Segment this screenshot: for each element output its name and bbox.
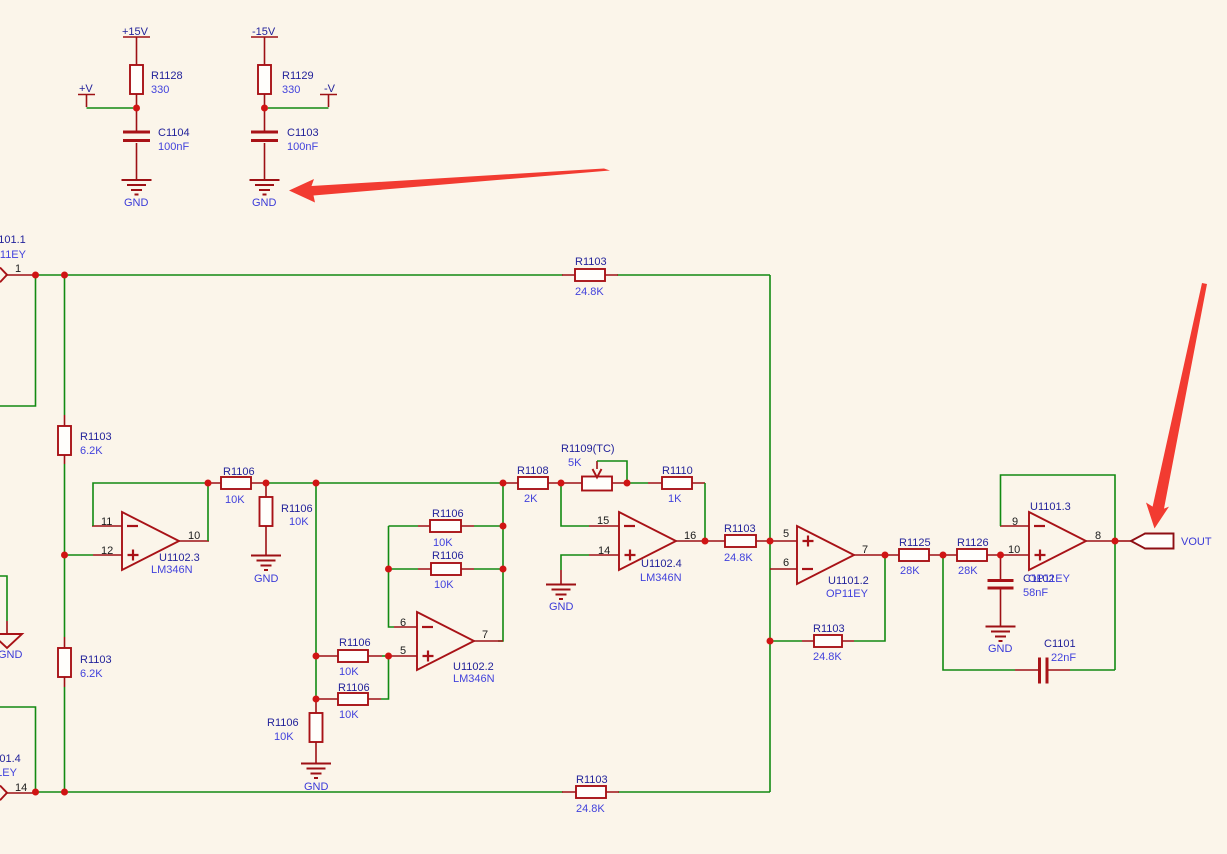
label R1103 <box>724 523 756 535</box>
svg-text:6.2K: 6.2K <box>80 668 103 680</box>
power rail -15V <box>251 26 278 65</box>
value OP11EY <box>826 588 869 600</box>
svg-text:-V: -V <box>324 83 336 95</box>
wire U1101.3 feedback box <box>1001 475 1116 541</box>
resistor R1106 (10K upper pair) <box>389 520 504 532</box>
svg-text:10K: 10K <box>289 516 309 528</box>
label R1103 <box>80 431 112 443</box>
label C1103 <box>287 127 319 139</box>
resistor R1110 (1K) <box>648 477 705 489</box>
wire x388 column pin6 <box>389 526 418 627</box>
op-amp U1101.1 (partial, left edge) <box>0 268 7 283</box>
wire R1106 to ground <box>265 526 267 555</box>
svg-text:28K: 28K <box>958 565 978 577</box>
svg-text:R1110: R1110 <box>662 465 693 477</box>
resistor R1106 (10K feedback U1102.3) <box>208 477 266 489</box>
svg-text:24.8K: 24.8K <box>724 552 753 564</box>
value 10K <box>433 537 453 549</box>
label C1104 <box>158 127 190 139</box>
terminal VOUT <box>1131 534 1174 549</box>
svg-text:24.8K: 24.8K <box>576 803 605 815</box>
label U1101.3 <box>1030 501 1071 513</box>
pin 15 <box>597 515 609 527</box>
op-amp U1102.3 <box>122 512 179 570</box>
svg-text:6: 6 <box>783 557 789 569</box>
wire node627 to R1110 <box>627 482 648 484</box>
pin 16 <box>684 530 696 542</box>
svg-text:10: 10 <box>1008 544 1020 556</box>
value 5K <box>568 457 582 469</box>
label C1101 <box>1044 638 1076 650</box>
svg-text:330: 330 <box>282 84 300 96</box>
label R1128 <box>151 70 183 82</box>
svg-text:7: 7 <box>482 629 488 641</box>
ground at U1102.4 pin14 <box>546 585 576 614</box>
ground bottom x316 <box>301 764 331 794</box>
capacitor C1102 (58nF) <box>988 555 1014 626</box>
svg-text:24.8K: 24.8K <box>575 286 604 298</box>
svg-text:GND: GND <box>549 601 574 613</box>
wire pin12 node down <box>64 555 66 648</box>
svg-text:R1108: R1108 <box>517 465 549 477</box>
label U1102.3 <box>159 552 200 564</box>
value 6.2K <box>80 668 103 680</box>
wire pin9 stub <box>1000 525 1029 527</box>
svg-text:58nF: 58nF <box>1023 587 1048 599</box>
svg-text:15: 15 <box>597 515 609 527</box>
wire pin11 to row483 <box>93 483 208 526</box>
wire long vertical feedback x770 <box>769 275 771 792</box>
resistor R1106 (10K lower row) <box>316 656 389 705</box>
op-amp U1101.2 <box>797 526 854 584</box>
svg-text:OP11EY: OP11EY <box>826 588 869 600</box>
svg-text:10K: 10K <box>225 494 245 506</box>
wire R1128 to node <box>136 94 138 108</box>
svg-text:C1101: C1101 <box>1044 638 1076 650</box>
label R1106 <box>223 466 255 478</box>
label C1102 <box>1023 573 1055 585</box>
wire left edge net <box>0 576 7 634</box>
pin 5 <box>400 645 406 657</box>
svg-text:R1125: R1125 <box>899 537 931 549</box>
svg-text:LM346N: LM346N <box>453 673 495 685</box>
svg-text:U1101.1: U1101.1 <box>0 234 26 246</box>
label R1106 <box>339 637 371 649</box>
label U1102.4 <box>641 558 682 570</box>
value 10K <box>339 666 359 678</box>
pin 14 <box>598 545 610 557</box>
wire pin5 stub <box>388 655 417 657</box>
resistor R1103 (6.2K lower) <box>58 648 71 677</box>
svg-text:10K: 10K <box>433 537 453 549</box>
power rail +15V <box>122 26 150 65</box>
value OP11EY <box>0 249 27 261</box>
wire +V to node <box>87 107 134 109</box>
svg-text:R1106: R1106 <box>432 508 464 520</box>
wire bottom row y792 <box>36 791 770 793</box>
svg-text:R1103: R1103 <box>813 623 845 635</box>
svg-text:R1103: R1103 <box>80 431 112 443</box>
resistor R1125 (28K) <box>885 549 943 561</box>
annotation arrow 1 (points to GND of C1103) <box>289 169 610 203</box>
svg-text:OP11EY: OP11EY <box>0 767 18 779</box>
value 10K <box>225 494 245 506</box>
value 28K <box>958 565 978 577</box>
svg-text:6.2K: 6.2K <box>80 445 103 457</box>
value 24.8K <box>576 803 605 815</box>
value 58nF <box>1023 587 1048 599</box>
wire pin14 output <box>6 792 36 794</box>
svg-text:R1106: R1106 <box>223 466 255 478</box>
capacitor C1103 <box>251 108 278 179</box>
value 10K <box>274 731 294 743</box>
label R1109(TC) <box>561 443 615 455</box>
wire U1101.1 feedback <box>0 275 36 406</box>
resistor R1103 (24.8K feedback) <box>772 555 885 647</box>
svg-text:+V: +V <box>79 83 93 95</box>
wire pin1 output <box>6 274 36 276</box>
svg-text:R1103: R1103 <box>80 654 112 666</box>
value 10K <box>339 709 359 721</box>
wire pin10 output <box>179 483 209 541</box>
svg-text:LM346N: LM346N <box>151 564 193 576</box>
value 330 <box>151 84 169 96</box>
net label VOUT <box>1181 536 1212 548</box>
label R1110 <box>662 465 693 477</box>
wire R1110 down to pin16 node <box>704 483 706 538</box>
svg-text:R1109(TC): R1109(TC) <box>561 443 615 455</box>
resistor R1106 (10K at pin5) <box>316 650 388 662</box>
wire node266 to R1106 vertical <box>265 483 267 497</box>
wire node943 to C1101 <box>943 555 1039 670</box>
label U1101.4 <box>0 753 21 765</box>
ground arrow (left edge) <box>0 634 23 661</box>
svg-text:R1106: R1106 <box>267 717 299 729</box>
pin 9 <box>1012 516 1018 528</box>
resistor R1106 (10K lower pair) <box>389 563 504 575</box>
wire R1106 to ground <box>315 742 317 763</box>
value 22nF <box>1051 652 1076 664</box>
wire pin11 stub <box>92 525 122 527</box>
wire wiper to node627 <box>597 461 627 483</box>
wire pin15 path <box>561 483 619 526</box>
value 10K <box>289 516 309 528</box>
label U1101.1 <box>0 234 26 246</box>
capacitor C1101 (22nF) <box>1040 658 1116 684</box>
resistor R1126 (28K) <box>943 549 1000 561</box>
potentiometer R1109(TC) 5K <box>561 461 627 491</box>
label U1101.2 <box>828 575 869 587</box>
svg-text:R1129: R1129 <box>282 70 314 82</box>
svg-text:LM346N: LM346N <box>640 572 682 584</box>
wire node to R1103 upper <box>64 275 66 426</box>
wire output node to VOUT <box>1115 540 1131 542</box>
svg-text:VOUT: VOUT <box>1181 536 1212 548</box>
svg-text:GND: GND <box>254 573 279 585</box>
svg-text:5: 5 <box>783 528 789 540</box>
wire pin7 output <box>854 554 885 556</box>
svg-text:R1106: R1106 <box>339 637 371 649</box>
svg-text:R1106: R1106 <box>281 503 313 515</box>
svg-text:100nF: 100nF <box>287 141 318 153</box>
wire x503 column <box>498 483 503 641</box>
wire pin6 U1101.2 <box>770 568 797 570</box>
resistor R1103 (24.8K between stages) <box>706 535 770 547</box>
ground below C1102 <box>986 627 1016 656</box>
svg-text:U1102.4: U1102.4 <box>641 558 682 570</box>
svg-text:R1126: R1126 <box>957 537 989 549</box>
value 100nF <box>158 141 189 153</box>
ground below C1104 <box>122 180 152 209</box>
value 6.2K <box>80 445 103 457</box>
pin 12 <box>101 545 113 557</box>
value 1K <box>668 493 682 505</box>
label R1126 <box>957 537 989 549</box>
op-amp U1102.4 <box>619 512 676 570</box>
label R1106 <box>338 682 370 694</box>
label R1103 <box>575 256 607 268</box>
wire pin16 output <box>676 540 706 542</box>
svg-text:GND: GND <box>124 197 149 209</box>
value 2K <box>524 493 538 505</box>
pin 10 <box>188 530 200 542</box>
svg-text:GND: GND <box>0 649 23 661</box>
capacitor C1104 <box>123 108 150 179</box>
label R1103 <box>813 623 845 635</box>
wire R1129 to node <box>264 94 266 108</box>
wire R1103 to pin12 node <box>64 455 66 555</box>
value 10K <box>434 579 454 591</box>
svg-text:R1128: R1128 <box>151 70 183 82</box>
wire node316-699 down <box>315 699 317 713</box>
value LM346N <box>640 572 682 584</box>
svg-text:OP11EY: OP11EY <box>1028 573 1071 585</box>
annotation arrow 2 (points to VOUT) <box>1146 283 1207 529</box>
wire R1103 to bottom row <box>64 677 66 792</box>
svg-text:24.8K: 24.8K <box>813 651 842 663</box>
value 28K <box>900 565 920 577</box>
value 330 <box>282 84 300 96</box>
svg-text:14: 14 <box>598 545 610 557</box>
op-amp U1101.3 <box>1029 512 1086 570</box>
resistor R1103 (6.2K upper) <box>58 426 71 455</box>
pin 5 <box>783 528 789 540</box>
svg-text:10K: 10K <box>434 579 454 591</box>
value 24.8K <box>724 552 753 564</box>
label R1106 <box>281 503 313 515</box>
label U1102.2 <box>453 661 494 673</box>
resistor R1103 (24.8K top) <box>562 269 618 281</box>
label R1129 <box>282 70 314 82</box>
svg-text:1: 1 <box>15 263 21 275</box>
wire output node down to C1101 <box>1114 541 1116 670</box>
value LM346N <box>453 673 495 685</box>
wire pin14 path <box>561 555 619 584</box>
svg-text:100nF: 100nF <box>158 141 189 153</box>
svg-text:330: 330 <box>151 84 169 96</box>
svg-text:U1102.2: U1102.2 <box>453 661 494 673</box>
svg-text:10K: 10K <box>339 709 359 721</box>
svg-text:R1103: R1103 <box>724 523 756 535</box>
label R1106 <box>432 550 464 562</box>
svg-text:R1106: R1106 <box>338 682 370 694</box>
resistor R1129 <box>258 65 271 94</box>
resistor R1103 (24.8K bottom) <box>562 786 619 798</box>
label R1106 <box>432 508 464 520</box>
svg-text:U1101.3: U1101.3 <box>1030 501 1071 513</box>
value OP11EY <box>0 767 18 779</box>
op-amp U1101.4 (partial, left edge) <box>0 786 7 801</box>
ground below R1106 <box>251 556 281 586</box>
value 24.8K <box>813 651 842 663</box>
svg-text:5K: 5K <box>568 457 582 469</box>
wire node to -V <box>268 107 329 109</box>
svg-text:2K: 2K <box>524 493 538 505</box>
power tap -V <box>320 83 337 107</box>
resistor R1106 (10K to GND bottom) <box>310 713 323 742</box>
label R1103 <box>576 774 608 786</box>
pin 14 <box>15 782 27 794</box>
pin 10 <box>1008 544 1020 556</box>
svg-text:1K: 1K <box>668 493 682 505</box>
svg-text:U1101.4: U1101.4 <box>0 753 21 765</box>
pin 11 <box>101 516 112 528</box>
svg-text:10K: 10K <box>339 666 359 678</box>
wire pin5 U1101.2 <box>767 540 797 542</box>
ground below C1103 <box>250 180 280 209</box>
pin 6 <box>783 557 789 569</box>
pin 1 <box>15 263 21 275</box>
svg-text:U1102.3: U1102.3 <box>159 552 200 564</box>
svg-text:22nF: 22nF <box>1051 652 1076 664</box>
svg-text:6: 6 <box>400 617 406 629</box>
wire pin8 output <box>1086 540 1117 542</box>
wire pin12 <box>65 554 123 556</box>
label R1125 <box>899 537 931 549</box>
svg-text:10K: 10K <box>274 731 294 743</box>
label R1108 <box>517 465 549 477</box>
power tap +V <box>78 83 95 107</box>
wire top row y275 <box>36 274 770 276</box>
wire x316 column <box>315 483 317 699</box>
svg-text:U1101.2: U1101.2 <box>828 575 869 587</box>
pin 7 <box>482 629 488 641</box>
pin 6 <box>400 617 406 629</box>
pin 8 <box>1095 530 1101 542</box>
label R1106 <box>267 717 299 729</box>
svg-text:R1106: R1106 <box>432 550 464 562</box>
value OP11EY (overlaps C1102) <box>1028 573 1071 585</box>
svg-text:GND: GND <box>988 643 1013 655</box>
svg-text:28K: 28K <box>900 565 920 577</box>
pin 7 <box>862 544 868 556</box>
svg-text:OP11EY: OP11EY <box>0 249 27 261</box>
value 24.8K <box>575 286 604 298</box>
value 100nF <box>287 141 318 153</box>
wire U1101.4 feedback <box>0 707 36 792</box>
svg-text:GND: GND <box>304 781 329 793</box>
svg-text:C1104: C1104 <box>158 127 190 139</box>
svg-text:R1103: R1103 <box>576 774 608 786</box>
value LM346N <box>151 564 193 576</box>
svg-text:C1103: C1103 <box>287 127 319 139</box>
resistor R1108 (2K) <box>504 477 561 489</box>
label R1103 <box>80 654 112 666</box>
wire pin10 stub <box>1000 554 1029 556</box>
op-amp U1102.2 <box>417 612 474 670</box>
wire pin7 output <box>474 640 503 642</box>
resistor R1128 <box>130 65 143 94</box>
svg-text:GND: GND <box>252 197 277 209</box>
wire row483 mid <box>266 482 504 484</box>
resistor R1106 (10K to GND) <box>260 497 273 526</box>
svg-text:R1103: R1103 <box>575 256 607 268</box>
